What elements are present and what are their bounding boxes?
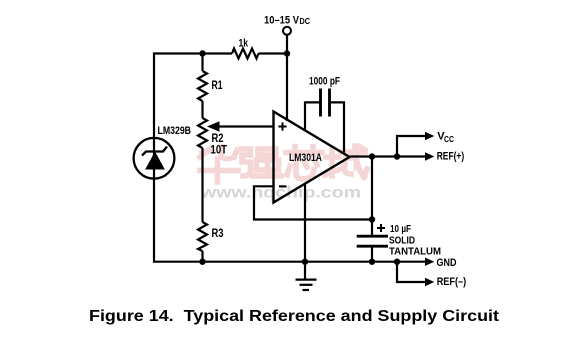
ground symbol bbox=[296, 280, 317, 290]
watermark chinese characters bbox=[200, 146, 367, 182]
wire wiper to noninverting input bbox=[218, 125, 274, 127]
op-amp minus input symbol bbox=[279, 185, 287, 187]
char cheng bbox=[329, 149, 335, 176]
potentiometer R2 wiper arrow bbox=[207, 121, 220, 131]
wire Vcc branch bbox=[397, 136, 427, 157]
wire R2-R3 bbox=[201, 148, 203, 222]
svg-text:Figure 14. Typical Reference: Figure 14. Typical Reference and Supply … bbox=[89, 308, 500, 325]
wire output node down to capacitor bbox=[371, 157, 373, 235]
char xin bbox=[286, 150, 322, 156]
arrow GND bbox=[425, 258, 434, 266]
resistor 1k bbox=[232, 49, 259, 59]
svg-text:10–15 V: 10–15 V bbox=[264, 15, 300, 27]
svg-text:10 µF: 10 µF bbox=[390, 223, 411, 235]
wire left rail bbox=[153, 52, 155, 262]
node capacitor bottom bbox=[369, 259, 375, 265]
resistor R2 bbox=[198, 118, 207, 148]
svg-text:CC: CC bbox=[444, 134, 454, 144]
wire op-amp power pin bbox=[286, 54, 288, 122]
capacitor C2 10uF plates bbox=[357, 236, 388, 246]
wire REF(-) branch bbox=[397, 262, 427, 282]
svg-text:TANTALUM: TANTALUM bbox=[389, 246, 441, 258]
wire top rail right segment bbox=[259, 52, 288, 54]
node supply junction bbox=[284, 50, 290, 56]
wire supply stub bbox=[286, 35, 288, 54]
svg-text:R3: R3 bbox=[212, 228, 224, 240]
wire R1 top lead bbox=[201, 54, 203, 72]
zener diode LM329B bbox=[134, 138, 175, 179]
ground stub wire bbox=[304, 262, 306, 279]
svg-text:REF(–): REF(–) bbox=[437, 276, 467, 288]
wire inverting input feedback loop bbox=[254, 186, 372, 219]
wire output bbox=[348, 155, 427, 157]
resistor R3 bbox=[198, 222, 207, 251]
wire R1-R2 bbox=[201, 101, 203, 118]
wire R3 bottom lead bbox=[201, 251, 203, 262]
node R3 bottom bbox=[199, 259, 205, 265]
svg-text:R2: R2 bbox=[212, 133, 224, 145]
svg-text:DC: DC bbox=[300, 16, 311, 26]
capacitor C2 10uF lead bbox=[371, 246, 373, 262]
capacitor C2 plus polarity mark bbox=[377, 224, 385, 232]
op-amp plus input symbol bbox=[278, 122, 286, 130]
node output bbox=[369, 153, 375, 159]
node GND branch bbox=[394, 259, 400, 265]
node Vcc branch bbox=[394, 153, 400, 159]
wire bottom rail bbox=[154, 261, 427, 263]
char qiang bbox=[242, 149, 251, 176]
svg-text:R1: R1 bbox=[212, 80, 223, 92]
node ground junction bbox=[302, 259, 308, 265]
node feedback junction bbox=[369, 216, 375, 222]
svg-text:LM329B: LM329B bbox=[158, 125, 192, 137]
svg-text:LM301A: LM301A bbox=[289, 152, 322, 164]
wire top rail left segment bbox=[154, 52, 232, 54]
node R1 top junction bbox=[199, 50, 205, 56]
svg-text:GND: GND bbox=[437, 257, 457, 269]
arrow REF(-) bbox=[425, 278, 434, 286]
arrow REF(+) bbox=[425, 152, 434, 160]
capacitor C1 1000pF bbox=[305, 89, 344, 153]
arrow Vcc bbox=[425, 132, 434, 140]
resistor R1 bbox=[198, 71, 207, 101]
op-amp U1 LM301A triangle bbox=[274, 112, 350, 203]
svg-text:1000 pF: 1000 pF bbox=[309, 75, 340, 87]
char hua bbox=[200, 149, 210, 157]
svg-text:1k: 1k bbox=[239, 37, 249, 49]
svg-text:10T: 10T bbox=[211, 145, 228, 157]
svg-text:REF(+): REF(+) bbox=[437, 150, 465, 162]
wire op-amp V- pin bbox=[304, 184, 306, 262]
supply terminal circle bbox=[283, 27, 291, 35]
